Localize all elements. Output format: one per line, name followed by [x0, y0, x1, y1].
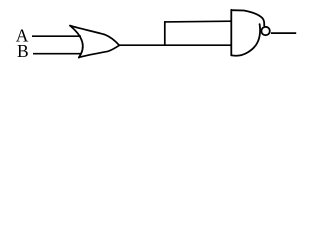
- wire output: [271, 32, 296, 34]
- nand-gate G2 inverter bubble: [261, 27, 269, 35]
- wire input A: [32, 35, 81, 37]
- wire input B: [33, 53, 81, 55]
- wire or-output to nand: [118, 44, 232, 46]
- box (delay element) top edge: [164, 20, 231, 23]
- svg-text:B: B: [17, 41, 29, 61]
- box (delay element) left edge: [164, 21, 166, 45]
- or-gate G1: [70, 26, 119, 58]
- nand-gate G2 body: [231, 10, 264, 56]
